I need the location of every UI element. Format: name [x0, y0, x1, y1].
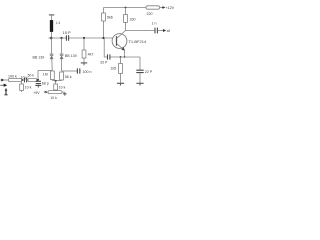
svg-text:BB 139: BB 139: [65, 54, 77, 58]
svg-text:+12V: +12V: [165, 6, 174, 10]
wire input to 100k: [4, 79, 9, 81]
svg-text:4k7: 4k7: [88, 53, 94, 57]
svg-text:56 k: 56 k: [65, 75, 72, 79]
terminal AF input arrow: [0, 79, 3, 81]
inductor L1: [50, 20, 53, 32]
capacitor 68p: [36, 81, 41, 83]
svg-text:22 P: 22 P: [145, 70, 153, 74]
svg-text:T1-BF214: T1-BF214: [128, 39, 147, 44]
wire 100k to node: [22, 79, 25, 81]
terminal +12V arrow: [162, 7, 165, 9]
resistor 50k: [28, 78, 37, 81]
input ground stub: [5, 90, 7, 95]
ground 4k7: [81, 62, 87, 64]
node AF/68p junction: [37, 79, 39, 81]
svg-text:220: 220: [147, 12, 153, 16]
wire 220 to +12V: [160, 7, 163, 9]
wire 1k5 top lead: [120, 57, 122, 64]
wire bias node B: [52, 80, 61, 82]
capacitor 33P feedback: [108, 54, 110, 59]
resistor 100k: [9, 78, 22, 81]
svg-text:10 k: 10 k: [25, 86, 32, 90]
wire base node to 4k7: [83, 38, 85, 50]
capacitor 1n: [155, 28, 157, 34]
svg-text:5k6: 5k6: [107, 16, 113, 20]
wire 1n to HF out: [157, 30, 161, 32]
wire emitter down: [124, 50, 126, 57]
wire tank rail left segment: [49, 37, 67, 39]
svg-text:100 n: 100 n: [83, 70, 92, 74]
svg-text:+9V: +9V: [33, 91, 40, 95]
node 1k5 junction: [120, 56, 122, 58]
wire node A down to AF rail: [37, 71, 39, 81]
svg-text:330: 330: [130, 18, 136, 22]
varactor D2 BB139: [60, 54, 64, 71]
wire wiper into pot: [55, 89, 57, 92]
resistor 1M: [51, 71, 55, 80]
node 10k divider junction: [22, 79, 24, 81]
node 330 junction top: [125, 7, 127, 9]
svg-text:15 P: 15 P: [63, 30, 72, 35]
capacitor 10u: [25, 78, 27, 83]
svg-text:L1: L1: [56, 21, 60, 25]
capacitor 100n: [77, 68, 79, 73]
wire 50k to node A corner: [37, 79, 38, 81]
resistor 220: [146, 6, 160, 9]
wire pot left lead: [44, 91, 48, 93]
wire 330 to collector node: [125, 23, 127, 31]
wire bypass cap to ground: [139, 73, 141, 84]
wire varactor D2 drop: [61, 38, 63, 54]
resistor 1k5: [119, 64, 123, 74]
transistor T1 circle: [112, 34, 127, 49]
svg-text:1 n: 1 n: [152, 22, 157, 26]
wire 330 top lead: [125, 8, 127, 15]
ground bypass cap: [136, 82, 143, 84]
svg-text:50 k: 50 k: [28, 74, 35, 78]
resistor 10k wiper: [54, 84, 58, 90]
resistor 5k6: [102, 13, 106, 21]
node B junction: [55, 80, 57, 82]
transistor collector lead: [117, 31, 126, 39]
ground 1k5: [117, 82, 124, 84]
wire 10k wiper resistor top: [55, 81, 57, 84]
node emitter junction: [124, 56, 126, 58]
resistor 56k: [60, 72, 64, 80]
ground pot: [63, 93, 67, 95]
capacitor C 15P: [66, 35, 68, 41]
svg-text:10 k: 10 k: [50, 96, 57, 100]
wire node A horizontal: [38, 70, 52, 72]
svg-text:100 k: 100 k: [8, 75, 17, 79]
wire 68p to ground: [37, 84, 39, 86]
wire tank rail right segment to base: [69, 37, 113, 39]
transistor base bar: [116, 36, 118, 46]
capacitor 33P emitter bypass: [136, 70, 143, 72]
input lower arrow: [0, 84, 6, 86]
svg-text:10 k: 10 k: [59, 86, 66, 90]
wire 10k divider drop: [21, 80, 23, 84]
svg-text:BB 139: BB 139: [33, 55, 45, 59]
wire 100n right stub: [80, 70, 81, 72]
svg-text:33 P: 33 P: [100, 60, 108, 64]
wire antenna to L1: [51, 15, 53, 20]
resistor 10k divider: [20, 84, 24, 90]
node D2 junction: [60, 37, 62, 39]
svg-text:1k5: 1k5: [111, 66, 117, 70]
node base/5k6 junction: [102, 37, 104, 39]
wire node C horizontal to 100n: [62, 70, 78, 72]
wire pot right lead: [62, 92, 65, 94]
svg-text:68 p: 68 p: [42, 81, 49, 85]
wire collector output: [126, 30, 155, 32]
terminal HF arrow: [161, 29, 165, 31]
resistor 330: [124, 15, 128, 23]
wire 4k7 to ground: [83, 58, 85, 63]
wire base feedback drop: [104, 38, 107, 57]
node 4k7 junction: [83, 37, 85, 39]
wire 10k divider bottom stub: [21, 90, 23, 92]
node L1/tank junction: [50, 37, 53, 40]
top supply rail: [104, 7, 147, 9]
wire 5k6 top lead: [103, 8, 105, 14]
resistor 4k7: [82, 50, 86, 58]
wire 5k6 bottom to base rail: [103, 21, 105, 38]
antenna: [49, 14, 54, 16]
potentiometer 10k body: [48, 91, 62, 94]
wire 1k5 to ground: [120, 74, 122, 84]
transistor emitter lead with arrow: [117, 43, 125, 50]
wire emitter rail: [110, 56, 140, 58]
svg-text:1M: 1M: [43, 73, 48, 77]
ground 68p: [35, 85, 41, 87]
wire varactor D1 drop: [51, 38, 53, 54]
svg-text:10 μ: 10 μ: [21, 75, 28, 79]
varactor D1 BB139: [50, 54, 54, 71]
terminal +9V arrow: [44, 91, 47, 93]
wire L1 to tank rail: [51, 32, 53, 38]
wire emitter rail corner down: [139, 57, 141, 70]
